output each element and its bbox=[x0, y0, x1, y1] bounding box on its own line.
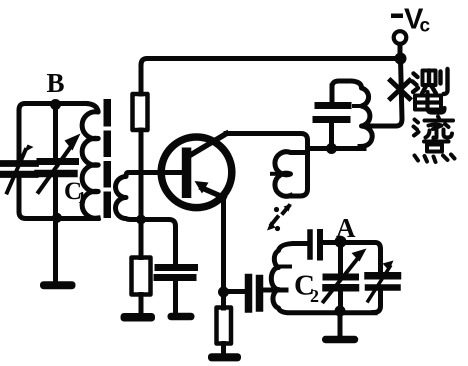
svg-text:2: 2 bbox=[310, 286, 319, 306]
svg-text:A: A bbox=[336, 213, 356, 243]
svg-text:B: B bbox=[47, 68, 65, 98]
svg-text:c: c bbox=[420, 16, 431, 37]
svg-text:1: 1 bbox=[78, 188, 87, 207]
